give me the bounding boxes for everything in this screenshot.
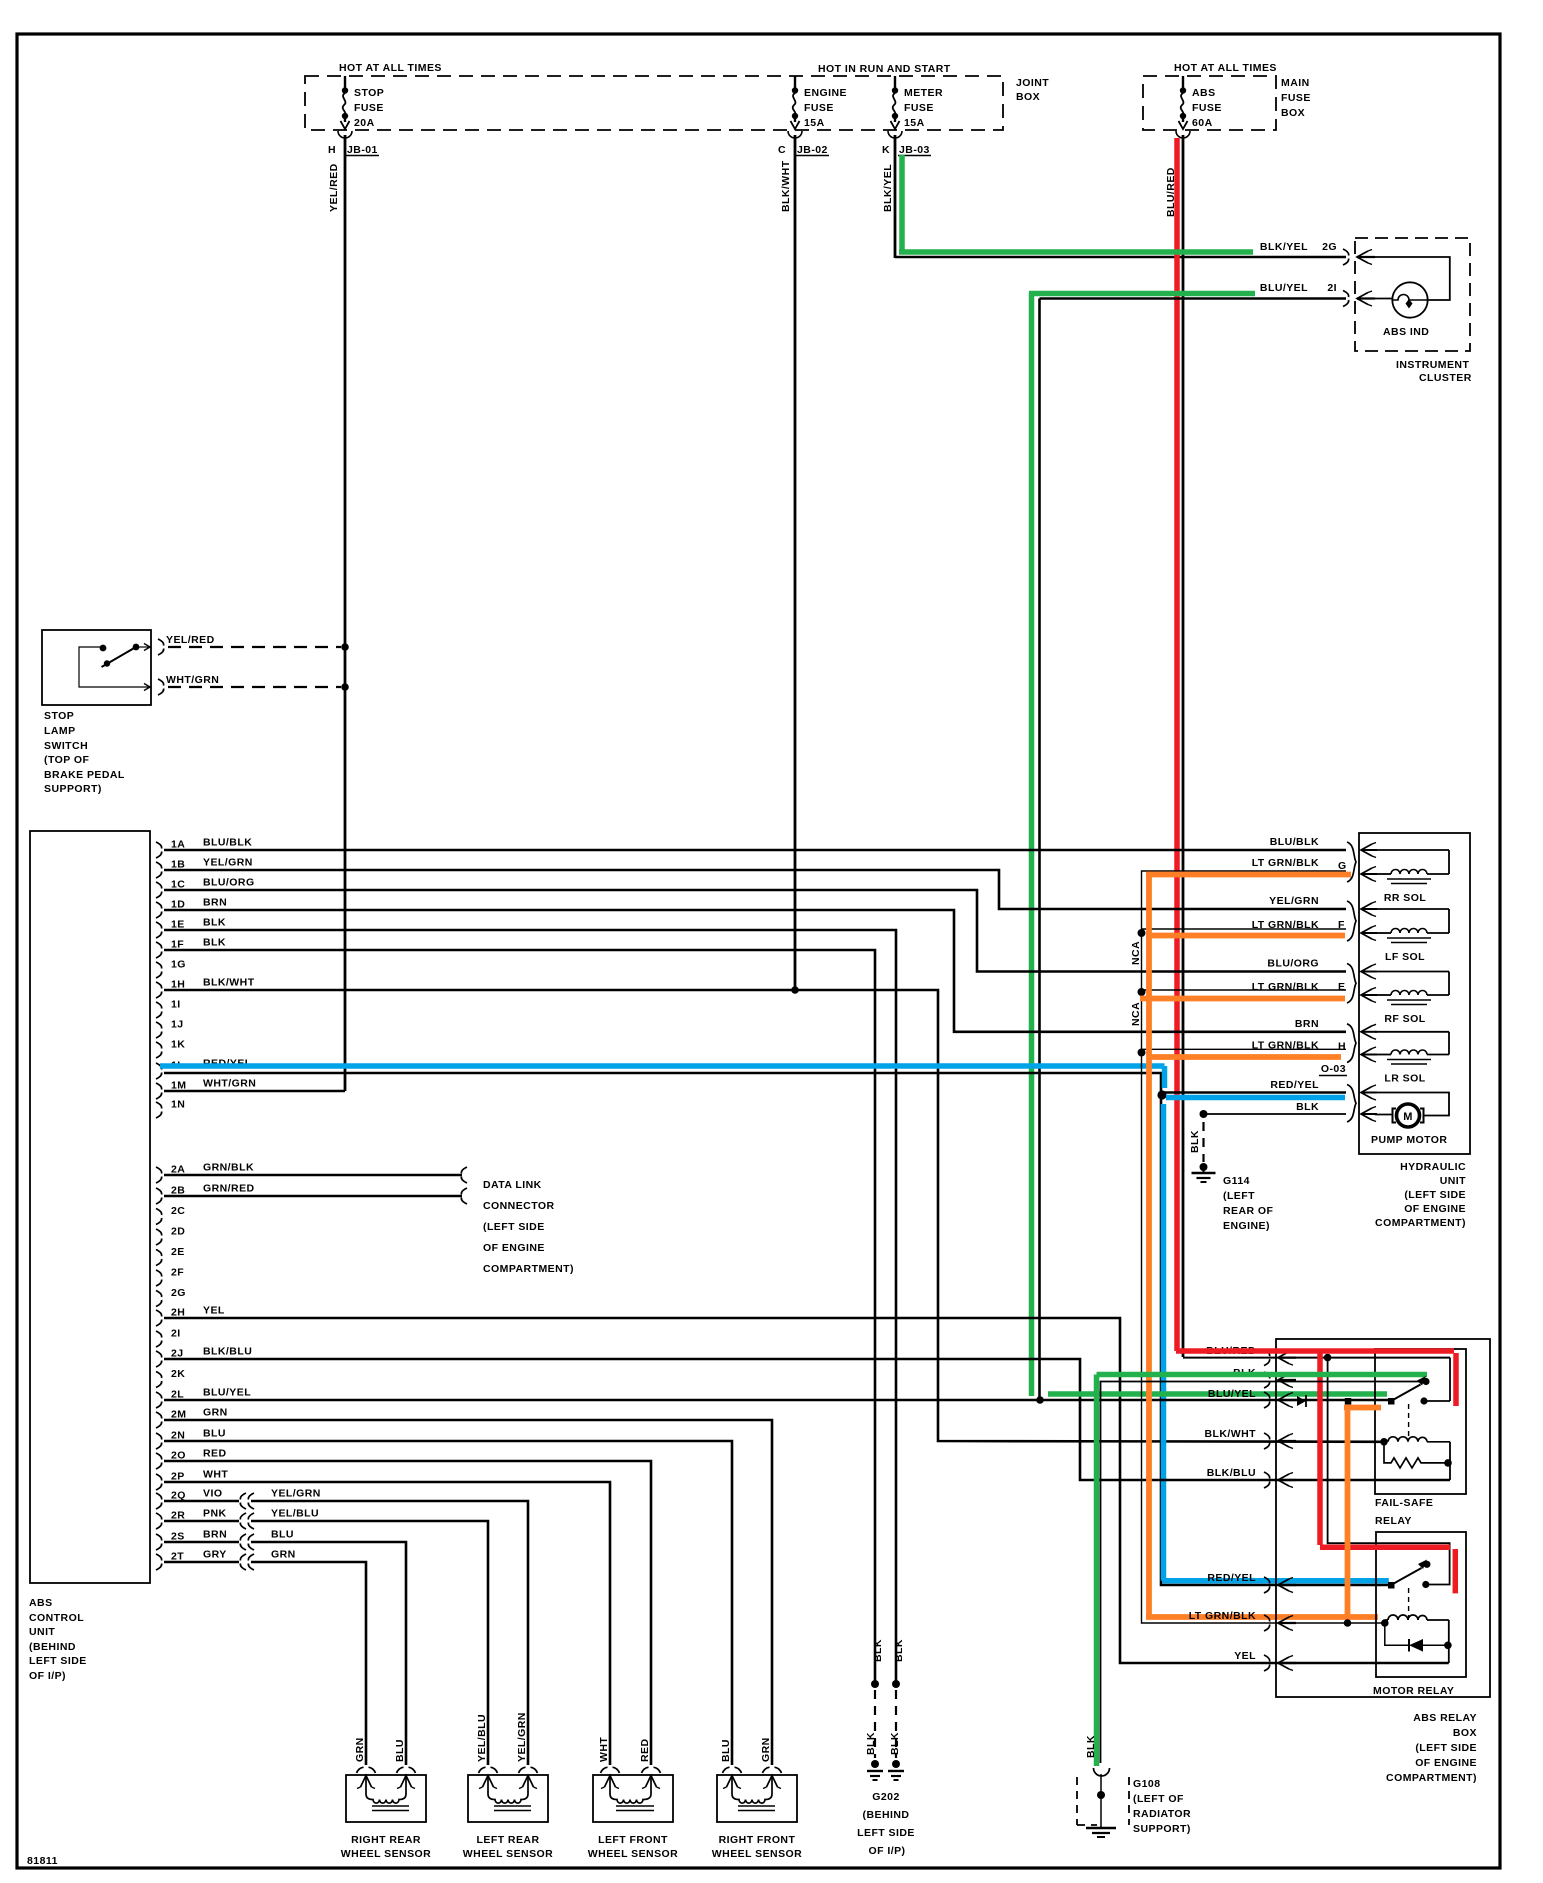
- svg-text:1G: 1G: [171, 959, 186, 971]
- connector YEL at ABS relay box: [1264, 1655, 1270, 1671]
- svg-text:(LEFT SIDE: (LEFT SIDE: [483, 1221, 545, 1233]
- wire highlight green BLU/YEL vertical: [1029, 293, 1035, 1396]
- svg-text:GRN: GRN: [203, 1407, 228, 1419]
- svg-text:INSTRUMENT: INSTRUMENT: [1396, 359, 1469, 371]
- svg-text:COMPARTMENT): COMPARTMENT): [1375, 1217, 1466, 1229]
- svg-text:(BEHIND: (BEHIND: [29, 1641, 76, 1653]
- pin 2B bracket: [156, 1188, 162, 1204]
- svg-text:G202: G202: [872, 1791, 900, 1803]
- solenoid RF SOL: [1347, 964, 1356, 1004]
- svg-text:M: M: [1403, 1111, 1413, 1123]
- svg-text:OF I/P): OF I/P): [29, 1670, 66, 1682]
- motor relay contact (BLU/RED side): [1422, 1581, 1429, 1588]
- junction YEL/RED: [341, 643, 349, 651]
- svg-text:BRN: BRN: [1295, 1018, 1319, 1030]
- junction LT GRN/BLK at motor relay coil: [1344, 1619, 1352, 1627]
- svg-text:GRN: GRN: [760, 1737, 772, 1762]
- svg-text:MOTOR RELAY: MOTOR RELAY: [1373, 1685, 1454, 1697]
- pin 1F bracket: [156, 942, 162, 958]
- ABS control unit box: [30, 831, 150, 1583]
- pin 2L bracket: [156, 1392, 162, 1408]
- svg-text:BLK/YEL: BLK/YEL: [1260, 241, 1308, 253]
- svg-text:YEL/GRN: YEL/GRN: [271, 1488, 321, 1500]
- connector 2G at instrument cluster: [1343, 249, 1349, 265]
- wire inside instrument cluster: [1375, 257, 1450, 300]
- svg-text:E: E: [1338, 981, 1345, 993]
- pump motor M: [1375, 1093, 1449, 1116]
- svg-text:BLU: BLU: [394, 1739, 406, 1762]
- svg-text:(LEFT SIDE: (LEFT SIDE: [1415, 1742, 1477, 1754]
- svg-text:BLK/BLU: BLK/BLU: [203, 1346, 252, 1358]
- svg-text:CLUSTER: CLUSTER: [1419, 372, 1472, 384]
- svg-text:WHEEL SENSOR: WHEEL SENSOR: [588, 1848, 678, 1860]
- wire highlight green BLU/YEL horizontal: [1029, 291, 1255, 297]
- svg-text:(LEFT: (LEFT: [1223, 1190, 1255, 1202]
- wire 1B YEL/GRN to hydraulic unit (jog at x=999): [164, 870, 1346, 909]
- wire 2J BLK/BLU to fail-safe relay (jog at x=1080): [164, 1359, 1450, 1480]
- svg-text:YEL: YEL: [203, 1305, 225, 1317]
- svg-text:BLU: BLU: [720, 1739, 732, 1762]
- wire 1D BRN to hydraulic unit (jog at x=954): [164, 910, 1346, 1032]
- svg-text:OF ENGINE: OF ENGINE: [483, 1242, 545, 1254]
- svg-text:COMPARTMENT): COMPARTMENT): [483, 1263, 574, 1275]
- svg-text:H: H: [1338, 1041, 1346, 1053]
- wire BLU/RED into relay box: [1183, 1357, 1450, 1359]
- svg-text:BLU/ORG: BLU/ORG: [203, 877, 255, 889]
- svg-text:BLK/BLU: BLK/BLU: [1207, 1467, 1256, 1479]
- svg-text:LT GRN/BLK: LT GRN/BLK: [1252, 857, 1319, 869]
- connector BLK/WHT at ABS relay box: [1264, 1433, 1270, 1449]
- wire highlight green BLU/YEL 2L row: [1048, 1391, 1387, 1397]
- svg-text:WHEEL SENSOR: WHEEL SENSOR: [712, 1848, 802, 1860]
- pin 1D bracket: [156, 902, 162, 918]
- solenoid RR SOL: [1347, 842, 1356, 882]
- svg-text:O-03: O-03: [1321, 1063, 1346, 1075]
- svg-text:YEL/BLU: YEL/BLU: [476, 1714, 488, 1762]
- svg-text:BOX: BOX: [1453, 1727, 1477, 1739]
- svg-text:BLK/WHT: BLK/WHT: [1204, 1428, 1256, 1440]
- svg-text:RADIATOR: RADIATOR: [1133, 1808, 1191, 1820]
- svg-text:RIGHT FRONT: RIGHT FRONT: [719, 1834, 796, 1846]
- svg-text:2C: 2C: [171, 1205, 185, 1217]
- solenoid LR SOL: [1347, 1024, 1356, 1063]
- svg-text:HOT AT ALL TIMES: HOT AT ALL TIMES: [339, 62, 442, 74]
- svg-text:(LEFT OF: (LEFT OF: [1133, 1793, 1184, 1805]
- svg-text:GRN/RED: GRN/RED: [203, 1183, 255, 1195]
- connector LT GRN/BLK at ABS relay box: [1264, 1615, 1270, 1631]
- pin 2I bracket: [156, 1331, 162, 1347]
- svg-text:RIGHT REAR: RIGHT REAR: [351, 1834, 421, 1846]
- svg-text:BLK: BLK: [203, 917, 226, 929]
- svg-text:2E: 2E: [171, 1246, 185, 1258]
- wire highlight orange LT GRN/BLK: [1146, 872, 1152, 1618]
- svg-text:BLK: BLK: [889, 1732, 901, 1755]
- svg-text:YEL/GRN: YEL/GRN: [203, 857, 253, 869]
- stop lamp switch contacts and arm: [79, 647, 150, 687]
- svg-text:JB-02: JB-02: [797, 144, 828, 156]
- svg-text:RED: RED: [639, 1738, 651, 1762]
- svg-text:2G: 2G: [1322, 241, 1337, 253]
- wire highlight green BLK/YEL vertical: [899, 155, 905, 252]
- svg-text:2G: 2G: [171, 1287, 186, 1299]
- svg-text:UNIT: UNIT: [1440, 1175, 1466, 1187]
- wire YEL rail inside motor relay: [1448, 1620, 1450, 1663]
- svg-text:CONNECTOR: CONNECTOR: [483, 1200, 555, 1212]
- wire BLK/YEL horizontal to instrument cluster 2G: [895, 256, 1346, 259]
- svg-text:FUSE: FUSE: [1281, 92, 1311, 104]
- svg-text:WHT: WHT: [203, 1469, 228, 1481]
- inline connector 2S: [240, 1534, 246, 1550]
- connector data link 2A: [461, 1167, 467, 1183]
- wire LT GRN/BLK vertical (thin black): [1142, 871, 1385, 1623]
- fuse ENGINE FUSE 15A: [794, 76, 796, 88]
- wire 1A BLU/BLK to hydraulic unit: [164, 849, 1346, 852]
- wire BLK from motor relay area to ground G108: [1101, 1382, 1427, 1764]
- wire LT GRN/BLK E row black: [1142, 989, 1347, 991]
- hydraulic unit box: [1359, 833, 1470, 1154]
- pin 1L bracket: [156, 1063, 162, 1079]
- joint box (dashed): [305, 76, 1003, 130]
- pin 2P bracket: [156, 1474, 162, 1490]
- svg-text:LT GRN/BLK: LT GRN/BLK: [1189, 1610, 1256, 1622]
- wire BLK/YEL vertical from JB-03: [894, 135, 897, 258]
- svg-text:BLK: BLK: [203, 937, 226, 949]
- svg-text:H: H: [328, 144, 336, 156]
- svg-text:GRN: GRN: [354, 1737, 366, 1762]
- wire BLK/BLU rail inside fail-safe relay: [1449, 1442, 1451, 1480]
- svg-text:(LEFT SIDE: (LEFT SIDE: [1404, 1189, 1466, 1201]
- wire 2L BLU/YEL to fail-safe relay: [164, 1399, 1390, 1402]
- connector BLK/BLU at ABS relay box: [1264, 1472, 1270, 1488]
- svg-text:LR SOL: LR SOL: [1384, 1073, 1425, 1085]
- svg-text:BLU: BLU: [271, 1529, 294, 1541]
- motor relay switch arm: [1388, 1582, 1395, 1589]
- wire 1F BLK to ground G202 (jog at x=875): [164, 950, 875, 1684]
- svg-text:BRN: BRN: [203, 897, 227, 909]
- stop lamp switch box: [42, 630, 151, 705]
- svg-text:15A: 15A: [904, 117, 925, 129]
- dashed wire YEL/RED to junction: [168, 646, 341, 648]
- svg-text:METER: METER: [904, 87, 943, 99]
- dashed wire WHT/GRN to junction: [168, 686, 341, 688]
- connector data link 2B: [461, 1188, 467, 1204]
- svg-text:BLK: BLK: [1085, 1735, 1097, 1758]
- solenoid LF SOL: [1347, 901, 1356, 941]
- svg-text:2I: 2I: [171, 1328, 181, 1340]
- svg-text:LT GRN/BLK: LT GRN/BLK: [1252, 981, 1319, 993]
- svg-text:BLK/WHT: BLK/WHT: [203, 977, 255, 989]
- connector at stop lamp switch WHT/GRN: [158, 679, 164, 695]
- fail-safe relay resistor: [1384, 1442, 1448, 1468]
- svg-text:MAIN: MAIN: [1281, 77, 1310, 89]
- svg-text:2K: 2K: [171, 1368, 185, 1380]
- svg-text:ENGINE): ENGINE): [1223, 1220, 1270, 1232]
- fuse METER FUSE 15A: [894, 76, 896, 88]
- wire highlight green BLK: [1097, 1372, 1428, 1378]
- svg-text:BLK/YEL: BLK/YEL: [882, 164, 894, 212]
- svg-text:HYDRAULIC: HYDRAULIC: [1400, 1161, 1466, 1173]
- svg-text:REAR OF: REAR OF: [1223, 1205, 1274, 1217]
- svg-text:LEFT REAR: LEFT REAR: [477, 1834, 540, 1846]
- svg-text:60A: 60A: [1192, 117, 1213, 129]
- wire BLU/YEL vertical (2I to 2L): [1038, 299, 1041, 1401]
- svg-text:HOT IN RUN AND START: HOT IN RUN AND START: [818, 63, 951, 75]
- wire highlight red BLU/RED vertical: [1174, 138, 1180, 1351]
- svg-text:YEL/RED: YEL/RED: [328, 163, 340, 212]
- svg-text:1N: 1N: [171, 1099, 185, 1111]
- svg-text:FUSE: FUSE: [904, 102, 934, 114]
- svg-text:RELAY: RELAY: [1375, 1515, 1412, 1527]
- wire 2A GRN/BLK to data link connector: [164, 1174, 462, 1177]
- ground G202: [871, 1680, 879, 1688]
- pin 2S bracket: [156, 1534, 162, 1550]
- wire 2N BLU to right front wheel sensor: [164, 1441, 732, 1765]
- svg-text:2I: 2I: [1327, 282, 1337, 294]
- wire 2S BRN/BLU to right rear wheel sensor: [164, 1541, 239, 1544]
- svg-text:C: C: [778, 144, 786, 156]
- wire 2M GRN to right front wheel sensor: [164, 1420, 772, 1765]
- pin 2N bracket: [156, 1433, 162, 1449]
- svg-text:FUSE: FUSE: [1192, 102, 1222, 114]
- svg-text:1J: 1J: [171, 1019, 184, 1031]
- junction LT GRN/BLK at H row: [1138, 1049, 1146, 1057]
- svg-text:PNK: PNK: [203, 1508, 227, 1520]
- svg-text:STOP: STOP: [44, 710, 74, 722]
- svg-text:LF SOL: LF SOL: [1385, 951, 1425, 963]
- svg-text:SUPPORT): SUPPORT): [44, 783, 102, 795]
- svg-text:RED/YEL: RED/YEL: [1270, 1079, 1319, 1091]
- svg-text:RR SOL: RR SOL: [1384, 892, 1427, 904]
- connector BLK at ABS relay box: [1264, 1372, 1270, 1388]
- wire 2T GRY/GRN to right rear wheel sensor: [164, 1561, 239, 1564]
- wire 1C BLU/ORG to hydraulic unit (jog at x=977): [164, 890, 1346, 972]
- inline connector 2R: [240, 1513, 246, 1529]
- wire BLU/YEL horizontal to instrument cluster 2I: [1040, 297, 1347, 300]
- svg-text:NCA: NCA: [1130, 1002, 1142, 1026]
- wire 1L RED/YEL black: [164, 1073, 1391, 1585]
- svg-text:BRAKE PEDAL: BRAKE PEDAL: [44, 769, 125, 781]
- svg-text:BRN: BRN: [203, 1529, 227, 1541]
- svg-text:OF ENGINE: OF ENGINE: [1415, 1757, 1477, 1769]
- right front wheel sensor: [717, 1775, 797, 1822]
- svg-text:81811: 81811: [27, 1855, 58, 1867]
- pin 1N bracket: [156, 1102, 162, 1118]
- svg-text:YEL/GRN: YEL/GRN: [516, 1712, 528, 1762]
- pin 1E bracket: [156, 922, 162, 938]
- svg-text:GRY: GRY: [203, 1549, 227, 1561]
- pin 2R bracket: [156, 1513, 162, 1529]
- svg-text:JB-03: JB-03: [899, 144, 930, 156]
- wire 1M WHT/GRN from stop lamp switch: [164, 1090, 345, 1093]
- ground G114: [1204, 1113, 1347, 1115]
- svg-text:STOP: STOP: [354, 87, 384, 99]
- svg-text:15A: 15A: [804, 117, 825, 129]
- fail-safe relay contact (BLU/RED side): [1420, 1397, 1427, 1404]
- svg-text:LAMP: LAMP: [44, 725, 76, 737]
- svg-text:BLU/YEL: BLU/YEL: [1208, 1388, 1256, 1400]
- svg-text:VIO: VIO: [203, 1488, 222, 1500]
- svg-text:YEL/GRN: YEL/GRN: [1269, 895, 1319, 907]
- pin 2D bracket: [156, 1229, 162, 1245]
- pin 2F bracket: [156, 1270, 162, 1286]
- main fuse box (dashed): [1143, 76, 1276, 130]
- svg-text:WHT: WHT: [598, 1737, 610, 1762]
- wire highlight blue RED/YEL: [160, 1063, 1165, 1069]
- fail-safe relay coil: [1380, 1438, 1388, 1446]
- svg-text:OF I/P): OF I/P): [869, 1845, 906, 1857]
- connector RED/YEL at ABS relay box: [1264, 1577, 1270, 1593]
- svg-text:YEL/BLU: YEL/BLU: [271, 1508, 319, 1520]
- svg-text:20A: 20A: [354, 117, 375, 129]
- fail-safe relay coil drive (dashed): [1408, 1404, 1410, 1437]
- lamp ABS IND: [1392, 282, 1427, 317]
- motor relay contact (NC): [1423, 1561, 1430, 1568]
- pin 2O bracket: [156, 1453, 162, 1469]
- svg-text:BLK/WHT: BLK/WHT: [780, 160, 792, 212]
- wire RED/YEL to hydraulic pump motor row: [1162, 1091, 1346, 1094]
- wire 1H BLK/WHT to fail-safe relay (jog at x=938): [164, 990, 1384, 1442]
- svg-text:FAIL-SAFE: FAIL-SAFE: [1375, 1497, 1433, 1509]
- svg-text:OF ENGINE: OF ENGINE: [1404, 1203, 1466, 1215]
- wire highlight red BLU/RED: [1176, 1348, 1454, 1354]
- svg-text:BLK: BLK: [1189, 1130, 1201, 1153]
- svg-text:HOT AT ALL TIMES: HOT AT ALL TIMES: [1174, 62, 1277, 74]
- junction LT GRN/BLK at F row: [1138, 929, 1146, 937]
- svg-text:G108: G108: [1133, 1778, 1161, 1790]
- svg-text:PUMP MOTOR: PUMP MOTOR: [1371, 1134, 1447, 1146]
- svg-text:FUSE: FUSE: [804, 102, 834, 114]
- svg-text:LEFT SIDE: LEFT SIDE: [29, 1655, 87, 1667]
- wire LT GRN/BLK H row black: [1142, 1048, 1347, 1050]
- svg-text:WHT/GRN: WHT/GRN: [203, 1078, 256, 1090]
- svg-text:YEL: YEL: [1234, 1650, 1256, 1662]
- svg-text:WHEEL SENSOR: WHEEL SENSOR: [341, 1848, 431, 1860]
- junction BLK/WHT (JB-02 feed joins 1H): [791, 986, 799, 994]
- svg-text:DATA LINK: DATA LINK: [483, 1179, 542, 1191]
- fail-safe relay box: [1375, 1349, 1466, 1494]
- pin 1J bracket: [156, 1022, 162, 1038]
- svg-text:BLK: BLK: [1296, 1101, 1319, 1113]
- pin 1H bracket: [156, 982, 162, 998]
- svg-text:BLU/YEL: BLU/YEL: [203, 1387, 251, 1399]
- pin 2T bracket: [156, 1554, 162, 1570]
- svg-text:WHT/GRN: WHT/GRN: [166, 674, 219, 686]
- svg-text:ABS: ABS: [1192, 87, 1216, 99]
- wire BLU/RED vertical from main fuse box to ABS relay box: [1182, 135, 1185, 1357]
- svg-text:SWITCH: SWITCH: [44, 740, 88, 752]
- svg-text:ABS: ABS: [29, 1597, 53, 1609]
- wire 1E BLK to ground G202 (jog at x=896): [164, 930, 896, 1684]
- wire 2O RED to left front wheel sensor: [164, 1461, 651, 1765]
- pin 2E bracket: [156, 1250, 162, 1266]
- wire YEL/RED vertical from JB-01 down to stop lamp switch and pin 1M: [344, 135, 347, 1091]
- svg-text:SUPPORT): SUPPORT): [1133, 1823, 1191, 1835]
- wire highlight orange LT GRN/BLK link: [1344, 1405, 1381, 1411]
- svg-text:ABS IND: ABS IND: [1383, 326, 1429, 338]
- svg-text:BLK: BLK: [872, 1639, 884, 1662]
- svg-text:BLU/BLK: BLU/BLK: [1270, 836, 1319, 848]
- junction WHT/GRN: [341, 683, 349, 691]
- svg-text:WHEEL SENSOR: WHEEL SENSOR: [463, 1848, 553, 1860]
- svg-text:BOX: BOX: [1016, 91, 1040, 103]
- fuse STOP FUSE 20A: [344, 76, 346, 88]
- svg-text:COMPARTMENT): COMPARTMENT): [1386, 1772, 1477, 1784]
- junction BLU/YEL at 2L row: [1036, 1396, 1044, 1404]
- svg-text:BLU/BLK: BLU/BLK: [203, 837, 252, 849]
- pin 1M bracket: [156, 1083, 162, 1099]
- wire BLK/WHT vertical from JB-02 down to pin 1H row: [794, 135, 797, 990]
- pin 1A bracket: [156, 842, 162, 858]
- svg-text:CONTROL: CONTROL: [29, 1612, 84, 1624]
- pin 1B bracket: [156, 862, 162, 878]
- connector BLU/YEL at ABS relay box: [1264, 1392, 1270, 1408]
- contact square BLU/YEL / LT GRN/BLK tap: [1345, 1398, 1352, 1405]
- svg-text:G: G: [1338, 860, 1347, 872]
- pin 2J bracket: [156, 1351, 162, 1367]
- svg-text:(BEHIND: (BEHIND: [863, 1809, 910, 1821]
- svg-text:BLU/ORG: BLU/ORG: [1267, 958, 1319, 970]
- wire 2H YEL to motor relay (jog at x=1120): [164, 1318, 1449, 1663]
- svg-text:BLU/YEL: BLU/YEL: [1260, 282, 1308, 294]
- wire 2B GRN/RED to data link connector: [164, 1195, 462, 1198]
- svg-text:GRN/BLK: GRN/BLK: [203, 1162, 254, 1174]
- right rear wheel sensor: [346, 1775, 426, 1822]
- pump motor connector pair RED/YEL + BLK: [1347, 1085, 1356, 1123]
- svg-text:BLU: BLU: [203, 1428, 226, 1440]
- svg-text:K: K: [882, 144, 890, 156]
- junction BLU/RED branch to motor relay: [1324, 1354, 1332, 1362]
- svg-text:LEFT FRONT: LEFT FRONT: [598, 1834, 668, 1846]
- pin 2C bracket: [156, 1209, 162, 1225]
- svg-text:G114: G114: [1223, 1175, 1250, 1187]
- connector at stop lamp switch YEL/RED: [158, 639, 164, 655]
- svg-text:1I: 1I: [171, 999, 181, 1011]
- pin 1G bracket: [156, 962, 162, 978]
- pin 2K bracket: [156, 1372, 162, 1388]
- svg-text:JOINT: JOINT: [1016, 77, 1049, 89]
- motor relay coil drive (dashed): [1408, 1588, 1410, 1618]
- svg-text:(TOP OF: (TOP OF: [44, 754, 89, 766]
- connector BLU/RED at ABS relay box: [1264, 1350, 1270, 1366]
- fail-safe relay switch arm: [1388, 1398, 1395, 1405]
- svg-text:JB-01: JB-01: [347, 144, 378, 156]
- svg-text:ABS RELAY: ABS RELAY: [1413, 1712, 1477, 1724]
- junction RED/YEL: [1157, 1090, 1166, 1099]
- svg-text:LEFT SIDE: LEFT SIDE: [857, 1827, 915, 1839]
- motor relay diode: [1385, 1623, 1409, 1645]
- pin 1I bracket: [156, 1002, 162, 1018]
- svg-text:BLK: BLK: [893, 1639, 905, 1662]
- junction LT GRN/BLK at E row: [1138, 988, 1146, 996]
- svg-text:2D: 2D: [171, 1226, 185, 1238]
- pin 2M bracket: [156, 1412, 162, 1428]
- svg-text:BOX: BOX: [1281, 107, 1305, 119]
- wire 2Q VIO/YEL-GRN to left rear wheel sensor: [164, 1500, 239, 1503]
- inline connector 2T: [240, 1554, 246, 1570]
- pin 2A bracket: [156, 1167, 162, 1183]
- ground G108: [1094, 1768, 1110, 1776]
- diode mark on BLU/YEL row: [1297, 1396, 1306, 1406]
- motor relay coil: [1381, 1619, 1389, 1627]
- pin 1C bracket: [156, 882, 162, 898]
- wire LT GRN/BLK F row black: [1142, 928, 1347, 930]
- pin 2H bracket: [156, 1310, 162, 1326]
- svg-text:RF SOL: RF SOL: [1384, 1013, 1425, 1025]
- wire 2R PNK/YEL-BLU to left rear wheel sensor: [164, 1520, 239, 1523]
- wire highlight green BLK/YEL horizontal: [899, 249, 1253, 255]
- svg-text:YEL/RED: YEL/RED: [166, 634, 215, 646]
- pin 2G bracket: [156, 1291, 162, 1307]
